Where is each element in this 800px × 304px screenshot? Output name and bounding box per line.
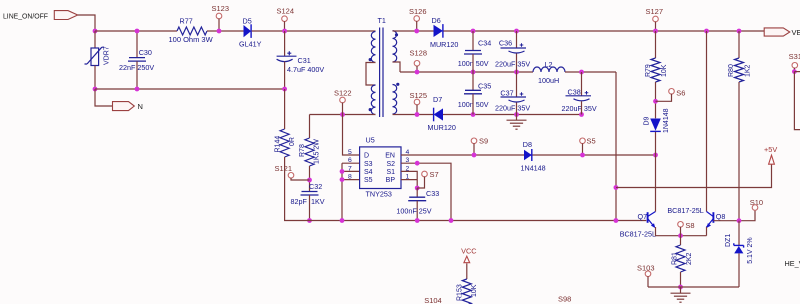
svg-text:Q7: Q7 (638, 212, 648, 221)
diode D9 (650, 119, 661, 132)
svg-text:S103: S103 (637, 264, 655, 273)
wire secondary bottom to D7 (393, 114, 434, 116)
wire to DZ1 (738, 221, 740, 246)
wire U5 pin 6 (342, 162, 360, 164)
svg-text:N: N (138, 102, 143, 111)
wire C34 to mid rail (472, 54, 474, 72)
svg-text:C31: C31 (298, 56, 311, 65)
svg-text:T1: T1 (378, 16, 386, 25)
test point S10 (752, 205, 758, 211)
svg-text:DZ1: DZ1 (725, 234, 732, 247)
svg-text:8: 8 (348, 174, 352, 181)
svg-text:LINE_ON/OFF: LINE_ON/OFF (3, 13, 48, 20)
junction S6 (653, 99, 658, 104)
wire C35 to bottom rail (472, 94, 474, 115)
wire secondary bottom rail (443, 114, 582, 116)
capacitor C35 (464, 90, 482, 94)
svg-text:4.7uF 400V: 4.7uF 400V (287, 65, 324, 74)
junction C36/C37 (514, 70, 519, 75)
junction C30 top (135, 29, 140, 34)
junction S127 / R79 (653, 29, 658, 34)
transistor Q8 (706, 212, 713, 228)
resistor R78 (305, 138, 314, 166)
wire R80 to Q8 base node (738, 82, 740, 221)
wire to C34 (472, 31, 474, 50)
test point S7 (422, 171, 428, 177)
wire to C36 (516, 31, 518, 48)
wire DZ1 to ground rail (738, 253, 740, 287)
junction C34 top (471, 29, 476, 34)
svg-text:5: 5 (348, 149, 352, 156)
wire ground rail right (648, 286, 739, 288)
junction C38 top (579, 70, 584, 75)
test point S9 stub (473, 143, 475, 155)
svg-text:S122: S122 (334, 89, 352, 98)
test point S122 stub (342, 103, 344, 115)
junction C36 top (514, 29, 519, 34)
svg-text:10K: 10K (661, 64, 668, 77)
resistor R80 (735, 58, 744, 82)
svg-text:S1: S1 (386, 169, 395, 176)
svg-text:MUR120: MUR120 (428, 123, 456, 132)
junction pin3 rail (449, 218, 454, 223)
wire top rail to Q8 collector (706, 31, 708, 212)
diode D8 (524, 149, 532, 161)
resistor R144 (280, 129, 289, 157)
svg-text:220uF 35V: 220uF 35V (495, 104, 530, 113)
wire to R81 (680, 236, 682, 245)
test point S121 stub (291, 178, 310, 180)
svg-text:C38: C38 (568, 87, 581, 96)
ground stub (516, 115, 518, 121)
port VE (764, 28, 790, 36)
svg-text:2K2: 2K2 (686, 252, 693, 265)
transformer T1 secondary bottom winding (393, 85, 397, 115)
wire center tap rail left (400, 71, 533, 73)
wire R78 to C32 (309, 166, 311, 191)
diode D6 (434, 24, 443, 38)
junction primary bottom / drain (340, 112, 345, 117)
wire U5 pin 2 (401, 171, 417, 188)
junction C34/C35 (471, 70, 476, 75)
wire to C35 (472, 72, 474, 90)
svg-text:5.1V 2%: 5.1V 2% (747, 237, 754, 263)
wire VDR7 to bottom rail (94, 66, 96, 90)
wire S31 down (794, 72, 800, 130)
svg-text:S8: S8 (685, 221, 694, 230)
svg-text:S124: S124 (277, 7, 295, 16)
wire C36 to mid rail (516, 54, 518, 73)
test point S127 stub (655, 22, 657, 32)
wire Q7 collector (655, 155, 657, 212)
wire Q7 emitter to Q8 emitter (656, 227, 707, 236)
ground stub right wire (680, 287, 682, 293)
junction C32 bottom (307, 218, 312, 223)
junction BP / C33 / S7 (415, 186, 420, 191)
svg-text:D: D (364, 153, 369, 160)
svg-text:C35: C35 (478, 82, 491, 91)
transistor Q7 (648, 212, 656, 228)
svg-text:S31: S31 (789, 52, 800, 61)
junction pin 8 (340, 177, 345, 182)
test point S128 (414, 61, 420, 67)
junction C35 bottom (471, 112, 476, 117)
wire to C30 (136, 31, 138, 57)
transformer T1 secondary phase dot 2 (396, 83, 399, 86)
wire U5 pin 3 to rail (401, 163, 451, 220)
power VCC arrow (464, 256, 470, 263)
power +5V arrow (769, 155, 775, 164)
test point S127 (653, 16, 659, 22)
svg-text:100uH: 100uH (538, 76, 559, 85)
transformer T1 core (380, 28, 383, 118)
capacitor C37 (501, 92, 527, 102)
ground symbol right (671, 293, 691, 302)
junction emitters / R81 (678, 233, 683, 238)
svg-text:U5: U5 (366, 136, 375, 145)
svg-text:S4: S4 (364, 169, 373, 176)
wire output top rail (443, 30, 764, 32)
svg-text:TNY253: TNY253 (366, 190, 392, 199)
svg-text:82pF: 82pF (291, 197, 308, 206)
wire U5 pin 8 (342, 179, 360, 181)
svg-text:C33: C33 (426, 189, 439, 198)
wire Q8 emitter (706, 227, 708, 236)
svg-text:S121: S121 (275, 164, 293, 173)
junction C38 bottom (579, 112, 584, 117)
wire U5 pin 7 (342, 170, 360, 172)
resistor R77 (177, 27, 207, 35)
svg-text:100nF 25V: 100nF 25V (396, 206, 431, 215)
svg-text:D5: D5 (243, 17, 252, 26)
test point S128 stub (416, 66, 418, 72)
wire to C38 (581, 72, 583, 96)
capacitor C32 (301, 192, 319, 196)
junction +5V line (614, 185, 619, 190)
wire C38 to bottom rail (581, 101, 583, 114)
wire U5 source pins to rail (341, 163, 343, 220)
wire C31 junction to R144 (284, 89, 286, 129)
wire R77 to D5 (207, 30, 244, 32)
op-amp U5 TNY253 body (360, 147, 401, 189)
svg-text:100 Ohm 3W: 100 Ohm 3W (169, 35, 214, 44)
ground symbol secondary (507, 120, 527, 129)
wire to C33 (416, 188, 418, 197)
test point S8 (678, 222, 684, 228)
wire primary bottom (310, 114, 376, 116)
svg-text:Q8: Q8 (716, 212, 726, 221)
inductor L2 (533, 67, 565, 72)
junction R80 top (737, 29, 742, 34)
test point S123 (216, 13, 222, 19)
junction bottom rail / N (93, 87, 98, 92)
test point S122 (340, 97, 346, 103)
zener diode DZ1 (734, 243, 744, 253)
svg-text:EN: EN (385, 153, 395, 160)
junction S126 (414, 29, 419, 34)
svg-text:S127: S127 (646, 7, 664, 16)
test point S103 (645, 271, 651, 277)
wire to R78 (309, 115, 311, 139)
test point S6 stub (656, 94, 672, 102)
svg-text:VCC: VCC (461, 247, 476, 256)
capacitor C36 (501, 43, 527, 53)
varistor VDR7 (85, 47, 105, 65)
junction S128 (415, 70, 420, 75)
svg-text:S7: S7 (430, 170, 439, 179)
junction +5V to lower rail (614, 218, 619, 223)
junction Q8 base / R80 / DZ1 (737, 218, 742, 223)
wire to C31 (284, 31, 286, 56)
svg-text:C36: C36 (499, 38, 512, 47)
junction C30 bottom (135, 87, 140, 92)
junction C37 bottom / ground (514, 112, 519, 117)
svg-text:S6: S6 (676, 89, 685, 98)
resistor R153 (462, 279, 471, 304)
capacitor C30 (128, 58, 146, 62)
wire Q8 base to S10 (713, 210, 755, 221)
svg-text:S125: S125 (410, 91, 428, 100)
transformer T1 primary phase dot 2 (369, 108, 372, 111)
svg-text:+5V: +5V (764, 145, 777, 154)
svg-text:6: 6 (348, 157, 352, 164)
svg-text:BC817-25L: BC817-25L (667, 206, 703, 215)
junction S123 (217, 29, 222, 34)
wire to R80 (738, 31, 740, 58)
wire S31 right (794, 71, 800, 73)
svg-text:S5: S5 (587, 136, 596, 145)
svg-text:7: 7 (348, 165, 352, 172)
diode D5 (244, 24, 252, 38)
svg-text:1N4148: 1N4148 (663, 108, 670, 133)
capacitor C31 (277, 51, 297, 61)
svg-text:BP: BP (386, 177, 396, 184)
svg-text:GL41Y: GL41Y (239, 40, 262, 49)
capacitor C33 (408, 197, 426, 201)
port LINE_ON/OFF (54, 11, 77, 20)
test point S103 stub (647, 276, 649, 287)
port N (113, 102, 135, 111)
wire D5 to transformer primary (252, 30, 376, 32)
wire C37 to bottom rail (516, 103, 518, 115)
wire to C37 (516, 72, 518, 97)
diode D7 (434, 108, 443, 122)
wire drain to U5 pin 5 (343, 115, 360, 156)
wire secondary top to D6 (393, 30, 434, 32)
U5 pin numbers left (348, 149, 352, 181)
test point S125 stub (416, 105, 418, 115)
junction input rail / VDR7 (93, 29, 98, 34)
U5 pin names (364, 153, 395, 185)
svg-text:S3: S3 (364, 161, 373, 168)
test point S124 (282, 16, 288, 22)
svg-text:R77: R77 (180, 17, 193, 26)
junction pin 3 / pin 2 net (415, 161, 420, 166)
svg-text:S104: S104 (424, 296, 442, 304)
junction C31 bottom / R144 (282, 87, 287, 92)
wire C31 to bottom rail (284, 62, 286, 90)
junction C33 rail (415, 218, 420, 223)
test point S5 stub (582, 143, 584, 155)
wire to N port (95, 89, 113, 106)
test point S6 (669, 89, 675, 95)
resistor R81 (676, 245, 685, 272)
resistor R79 (651, 58, 660, 82)
test point S31 stub (793, 68, 795, 72)
svg-text:D7: D7 (433, 95, 442, 104)
svg-text:1KV: 1KV (311, 197, 325, 206)
svg-text:S9: S9 (479, 136, 488, 145)
wire R81 to ground rail (680, 272, 682, 287)
transformer T1 center tap step (393, 62, 401, 72)
wire D9 to EN node (655, 132, 657, 155)
junction S124 / C31 (282, 29, 287, 34)
wire C32 to rail (309, 195, 311, 221)
wire C33 to rail (416, 201, 418, 221)
svg-text:R78: R78 (299, 144, 306, 157)
test point S123 stub (218, 19, 220, 32)
junction Q8 collector rail (704, 29, 709, 34)
svg-text:1K2: 1K2 (744, 64, 751, 77)
wire to R79 (655, 31, 657, 58)
junction S31 (792, 69, 797, 74)
test point S124 stub (284, 21, 286, 31)
svg-text:C30: C30 (139, 48, 152, 57)
wire to +5V symbol (616, 164, 772, 187)
svg-text:S126: S126 (409, 7, 427, 16)
svg-text:R80: R80 (728, 64, 735, 77)
U5 pin numbers right (406, 149, 410, 181)
capacitor C34 (464, 51, 482, 55)
junction pin 7 (340, 169, 345, 174)
test point S126 stub (416, 21, 418, 31)
test point S9 (471, 138, 477, 144)
junction source rail (340, 218, 345, 223)
test point S125 (414, 99, 420, 105)
svg-text:D9: D9 (643, 116, 650, 125)
test point S121 (288, 173, 294, 179)
junction S5 (580, 153, 585, 158)
svg-text:1N4148: 1N4148 (521, 163, 546, 172)
wire from LINE_ON/OFF port (78, 15, 95, 31)
junction S125 (415, 112, 420, 117)
capacitor C38 (566, 91, 592, 101)
svg-text:S98: S98 (558, 295, 571, 304)
wire VCC to R153 (466, 263, 468, 279)
svg-text:S5: S5 (364, 177, 373, 184)
svg-text:C32: C32 (309, 182, 322, 191)
wire R144 to main lower rail / Q7 base (285, 157, 647, 221)
svg-text:MUR120: MUR120 (430, 40, 458, 49)
junction S121 (307, 178, 312, 183)
test point S31 (792, 63, 798, 69)
wire U5 pin 1 BP (401, 179, 417, 181)
wire R79 to D9 (655, 82, 657, 118)
svg-text:C34: C34 (478, 38, 491, 47)
wire +5V output down (615, 72, 617, 221)
junction S9 (472, 153, 477, 158)
test point S5 (580, 138, 586, 144)
transformer T1 primary series link (366, 63, 376, 86)
svg-text:HE_V: HE_V (785, 259, 800, 268)
transformer T1 primary phase dot (369, 58, 372, 61)
svg-text:D8: D8 (523, 140, 532, 149)
wire C30 to bottom rail (136, 61, 138, 89)
wire top input rail left (95, 30, 177, 32)
svg-text:C37: C37 (500, 89, 513, 98)
wire L2 to +5V node (565, 71, 616, 73)
wire bottom input rail (95, 88, 285, 90)
transformer T1 primary top winding (371, 32, 375, 63)
transformer T1 primary bottom winding (371, 85, 375, 115)
transformer T1 secondary top winding (393, 31, 397, 62)
svg-text:220uF 35V: 220uF 35V (495, 60, 530, 69)
svg-text:220uF 35V: 220uF 35V (562, 104, 597, 113)
test point S7 stub (417, 177, 424, 189)
svg-text:D6: D6 (432, 16, 441, 25)
junction R81 ground (678, 285, 683, 290)
svg-text:S2: S2 (386, 161, 395, 168)
svg-text:VDR7: VDR7 (104, 46, 111, 65)
test point S8 stub (680, 227, 682, 236)
test point S126 (414, 16, 420, 22)
wire to VDR7 (94, 31, 96, 48)
junction EN / D9 / Q7 collector (653, 153, 658, 158)
svg-text:1K5 2W: 1K5 2W (313, 139, 320, 164)
svg-text:S128: S128 (410, 48, 428, 57)
svg-text:BC817-25L: BC817-25L (620, 229, 656, 238)
wire U5 pin 4 EN line (401, 154, 656, 156)
svg-text:VE: VE (792, 28, 800, 37)
svg-text:S123: S123 (212, 4, 230, 13)
transformer T1 secondary phase dot (395, 33, 398, 36)
